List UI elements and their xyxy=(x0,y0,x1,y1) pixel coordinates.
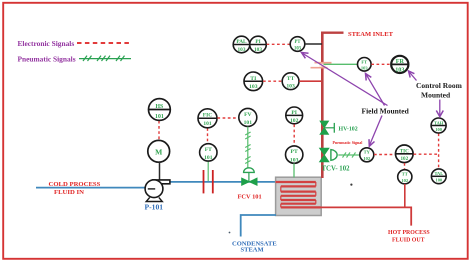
svg-text:Control Room: Control Room xyxy=(416,81,463,90)
stray dot mark xyxy=(350,184,352,186)
svg-text:Field Mounted: Field Mounted xyxy=(362,106,410,115)
pipe break gap xyxy=(319,64,326,67)
svg-text:101: 101 xyxy=(155,114,164,120)
instrument bubble TY-102 xyxy=(360,148,374,162)
instrument bubble TT-102 xyxy=(398,170,412,184)
svg-text:FR: FR xyxy=(396,59,405,65)
svg-text:HS: HS xyxy=(156,104,164,110)
svg-text:103: 103 xyxy=(395,67,404,73)
instrument bubble PI-102 xyxy=(286,107,303,124)
svg-text:FV: FV xyxy=(244,112,251,118)
condensate outlet pipe (blue) xyxy=(241,215,276,237)
instrument bubble TIC-102 xyxy=(396,145,414,163)
svg-text:103: 103 xyxy=(294,47,302,52)
svg-text:103: 103 xyxy=(254,47,262,53)
electronic signal TIC-102 to TT-102 xyxy=(404,163,406,169)
orifice flange bar (left) xyxy=(203,170,205,193)
instrument bubble PT-103 (top) xyxy=(290,37,305,52)
legend: electronic signal dashed sample xyxy=(77,42,131,44)
svg-text:TAL: TAL xyxy=(434,171,443,176)
control valve TCV-102 body xyxy=(320,148,330,162)
svg-text:FIC: FIC xyxy=(203,113,213,119)
electronic signal FIC-101 to FV-101 xyxy=(217,117,238,119)
hand valve HV-102 lever xyxy=(324,127,334,129)
svg-text:Mounted: Mounted xyxy=(421,91,451,100)
instrument bubble PAL-103 xyxy=(233,36,250,53)
svg-text:TT: TT xyxy=(287,76,295,82)
svg-text:PT: PT xyxy=(295,40,302,45)
svg-text:TT: TT xyxy=(402,172,408,177)
instrument bubble FV-101 xyxy=(239,108,257,126)
instrument bubble TAL-100 xyxy=(431,169,446,184)
svg-text:FT: FT xyxy=(205,147,212,153)
svg-text:PI: PI xyxy=(291,110,297,116)
steam main pipe (vertical) xyxy=(321,32,324,178)
control valve TCV-102 actuator diaphragm xyxy=(331,150,337,161)
hot process outlet pipe xyxy=(321,207,412,225)
svg-text:100: 100 xyxy=(435,127,442,132)
instrument bubble HS-101 xyxy=(149,99,171,121)
stray dot mark xyxy=(229,232,231,234)
svg-text:TAH: TAH xyxy=(434,120,444,125)
svg-text:COLD PROCESS: COLD PROCESS xyxy=(49,181,101,188)
svg-text:M: M xyxy=(155,147,162,156)
svg-text:STEAM: STEAM xyxy=(241,247,264,254)
electronic signal PI-102 to PT-103 xyxy=(293,124,295,146)
svg-text:Electronic Signals: Electronic Signals xyxy=(18,39,75,48)
instrument bubble TAH-100 xyxy=(431,118,446,133)
svg-text:102: 102 xyxy=(400,156,408,162)
process tap PT-103 to steam pipe xyxy=(305,43,322,45)
control valve FCV-101 stem xyxy=(248,173,250,182)
electronic signal HS-101 to M xyxy=(158,121,160,140)
svg-text:103: 103 xyxy=(290,157,299,163)
pointer arrow to PT-103 (top) xyxy=(302,53,388,106)
instrument bubble FT-103 xyxy=(358,58,372,72)
svg-text:TI: TI xyxy=(250,76,257,82)
process tap TT-102 to hot outlet pipe xyxy=(404,184,406,207)
pointer arrow to FT-103 xyxy=(366,74,385,106)
svg-text:102: 102 xyxy=(401,178,409,183)
impulse line steam pipe to FT-103 (green) xyxy=(324,63,358,65)
svg-text:102: 102 xyxy=(363,156,371,161)
instrument bubble FR-103 xyxy=(391,56,408,74)
svg-text:100: 100 xyxy=(436,178,443,183)
svg-text:101: 101 xyxy=(203,121,212,127)
instrument bubble PT-103 (exchanger) xyxy=(286,146,303,163)
pipe break tick (upper) xyxy=(315,62,332,64)
pointer arrow to TY-102 xyxy=(369,116,382,147)
svg-text:103: 103 xyxy=(238,47,246,53)
svg-text:103: 103 xyxy=(286,84,295,90)
instrument bubble PI-103 xyxy=(250,36,267,53)
svg-text:HOT PROCESS: HOT PROCESS xyxy=(388,230,430,236)
svg-text:P-101: P-101 xyxy=(145,202,164,211)
electronic signal TIC-102 to alarms xyxy=(414,153,439,155)
svg-text:PAL: PAL xyxy=(236,39,247,45)
steam inlet stub pipe xyxy=(321,32,344,34)
svg-text:103: 103 xyxy=(361,66,369,71)
control valve FCV-101 body xyxy=(242,178,257,185)
electronic signal TI-103 to TT-103 xyxy=(263,80,282,82)
svg-text:103: 103 xyxy=(249,84,258,90)
svg-text:FLUID IN: FLUID IN xyxy=(54,189,84,196)
hand valve HV-102 body xyxy=(320,121,329,134)
svg-text:Pneumatic Signals: Pneumatic Signals xyxy=(18,54,76,63)
heat exchanger coil xyxy=(276,182,321,207)
svg-text:TY: TY xyxy=(364,150,371,155)
pump discharge pipe (blue) to exchanger xyxy=(170,181,277,183)
pointer arrow to FR-103 xyxy=(409,71,417,81)
svg-text:FCV 101: FCV 101 xyxy=(238,194,262,201)
instrument bubble FIC-101 xyxy=(198,109,217,128)
svg-text:102: 102 xyxy=(290,118,299,124)
motor bubble M xyxy=(148,140,170,162)
electronic signal alarm riser xyxy=(438,133,440,168)
svg-text:PT: PT xyxy=(291,149,298,155)
motor shaft wire xyxy=(159,162,161,180)
heat exchanger E-101 shell xyxy=(276,177,322,215)
electronic signal PI-103 to PT-103 xyxy=(267,43,290,45)
pump P-101 xyxy=(145,180,170,202)
instrument bubble TI-103 xyxy=(244,72,263,91)
svg-text:FLUID OUT: FLUID OUT xyxy=(392,237,425,243)
svg-text:STEAM INLET: STEAM INLET xyxy=(348,31,394,38)
svg-text:101: 101 xyxy=(244,120,253,126)
control valve FCV-101 actuator diaphragm xyxy=(244,168,255,173)
electronic signal FIC-101 to FT-101 xyxy=(207,128,209,143)
svg-text:FT: FT xyxy=(361,59,367,64)
svg-text:HV-102: HV-102 xyxy=(339,126,358,132)
svg-text:101: 101 xyxy=(204,155,213,161)
cold process fluid inlet pipe (blue) xyxy=(36,187,146,189)
instrument bubble FT-101 xyxy=(200,144,217,161)
pipe break tick (lower) xyxy=(311,67,328,69)
impulse line FT-101 to orifice xyxy=(207,161,209,181)
legend: pneumatic signal hatched sample xyxy=(79,56,131,61)
pointer arrow to TAH-100 xyxy=(436,100,443,117)
svg-text:TIC: TIC xyxy=(400,148,409,154)
impulse line PT-103 to exchanger xyxy=(293,163,295,177)
svg-text:Pneumatic Signal: Pneumatic Signal xyxy=(333,140,364,145)
svg-text:TCV- 102: TCV- 102 xyxy=(322,166,351,173)
svg-text:PI: PI xyxy=(255,39,260,45)
orifice flange bar (right) xyxy=(212,170,214,193)
process tap TT-103 to steam pipe xyxy=(299,80,321,82)
pneumatic signal FV-101 to FCV-101 xyxy=(245,127,250,168)
instrument bubble TT-103 xyxy=(282,73,299,90)
electronic signal TY-102 to TIC-102 xyxy=(374,154,395,156)
electronic signal FT-103 to FR-103 xyxy=(371,63,391,65)
pneumatic signal TCV-102 to TY-102 xyxy=(338,152,360,157)
